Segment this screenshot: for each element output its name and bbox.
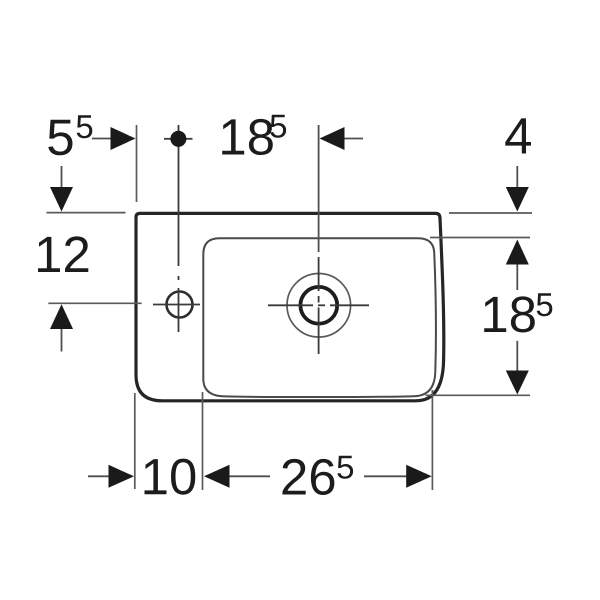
tap hole vertical centerline xyxy=(178,125,180,332)
drain outer circle xyxy=(287,274,351,338)
extension line right (inner bowl bottom edge) xyxy=(426,394,531,396)
extension line for 5.5 (vertical, basin left edge) xyxy=(136,125,138,202)
extension line right (inner bowl top edge) xyxy=(430,237,530,239)
extension line left (basin top edge) xyxy=(47,212,126,214)
dim 12 label xyxy=(38,236,88,272)
drain horizontal crosshair xyxy=(268,304,369,306)
tap hole horizontal crosshair xyxy=(153,304,200,306)
extension line bottom left (basin left edge) xyxy=(134,393,136,489)
dim 18.5 right down arrow xyxy=(506,341,529,395)
dim 4 label xyxy=(505,118,531,153)
extension line bottom right (inner bowl right edge) xyxy=(431,390,433,490)
dim 26.5 left arrow (points left) xyxy=(204,465,270,488)
dim 18.5 right up arrow xyxy=(506,240,529,291)
washbasin outer outline xyxy=(136,213,444,400)
dim 26.5 label xyxy=(283,456,354,495)
dim 18.5 right label xyxy=(484,293,552,332)
extension line top right (basin top edge) xyxy=(449,212,532,214)
drain inner circle xyxy=(300,287,337,324)
dim 5.5 label xyxy=(48,115,92,155)
drain vertical centerline xyxy=(318,125,320,354)
dim 10 left arrow (points right) xyxy=(88,465,134,488)
dim 26.5 right arrow (points right) xyxy=(364,465,432,488)
dim 10 label xyxy=(145,459,196,495)
dim 12 up arrow xyxy=(50,304,73,351)
dim 18.5 top label xyxy=(222,115,286,155)
dim 18.5 top arrow (points left at drain centerline) xyxy=(320,127,364,150)
dim 12 down arrow xyxy=(50,166,73,212)
washbasin inner bowl outline xyxy=(203,238,436,397)
extension line left (tap hole height) xyxy=(48,302,141,304)
tap hole circle xyxy=(167,292,193,318)
extension line bottom (inner bowl left edge) xyxy=(202,392,204,490)
tap hole position dot with side ticks xyxy=(164,131,193,147)
dim 4 down arrow xyxy=(506,166,529,212)
dim 5.5 arrow (points right) xyxy=(92,127,136,150)
